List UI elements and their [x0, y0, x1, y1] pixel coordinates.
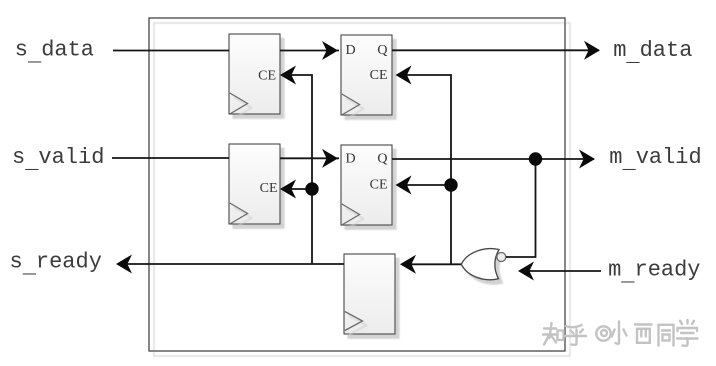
svg-text:m_valid: m_valid — [609, 145, 701, 175]
svg-text:D: D — [346, 152, 356, 167]
svg-text:CE: CE — [260, 181, 278, 196]
svg-text:s_data: s_data — [15, 38, 94, 68]
svg-text:Q: Q — [377, 43, 387, 58]
svg-text:s_ready: s_ready — [10, 250, 102, 280]
svg-text:m_ready: m_ready — [608, 258, 700, 288]
svg-text:CE: CE — [258, 69, 276, 84]
svg-text:CE: CE — [370, 178, 388, 193]
svg-text:CE: CE — [370, 68, 388, 83]
svg-text:D: D — [346, 43, 356, 58]
svg-text:Q: Q — [377, 152, 387, 167]
svg-text:s_valid: s_valid — [12, 145, 104, 175]
svg-text:m_data: m_data — [613, 38, 692, 68]
